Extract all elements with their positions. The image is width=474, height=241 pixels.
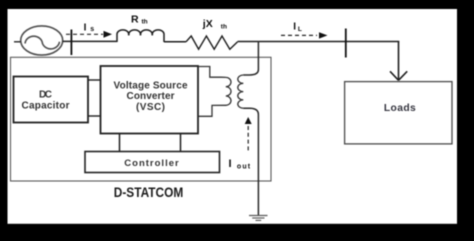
wire source to bus (63, 40, 117, 42)
svg-text:(VSC): (VSC) (136, 102, 165, 113)
svg-text:th: th (221, 24, 227, 31)
resistor jXth (186, 36, 238, 49)
ground (249, 216, 268, 221)
wire transformer to ground (243, 108, 258, 215)
arrowhead into Loads (390, 71, 407, 80)
wire DC link top (88, 79, 101, 81)
svg-text:th: th (142, 19, 148, 26)
inductor Rth (117, 30, 164, 42)
label VSC (114, 80, 188, 112)
svg-text:Capacitor: Capacitor (22, 100, 70, 111)
current arrow IL (dashed) (281, 32, 328, 38)
svg-text:D-STATCOM: D-STATCOM (114, 185, 184, 200)
wire jXth to load corner (238, 41, 400, 43)
wire junction to transformer (243, 41, 258, 75)
svg-text:I: I (84, 23, 87, 34)
Loads box (345, 82, 452, 144)
AC source G1 (21, 26, 63, 55)
svg-text:R: R (131, 13, 139, 25)
svg-text:s: s (90, 26, 94, 33)
svg-text:DC: DC (39, 89, 52, 100)
wire DC link bottom (88, 115, 101, 117)
D-STATCOM enclosure box (11, 57, 272, 181)
current arrow Is (dashed) (66, 31, 112, 38)
svg-text:Voltage Source: Voltage Source (114, 80, 188, 91)
bus bar node 2 (345, 29, 347, 58)
svg-text:Converter: Converter (127, 91, 175, 102)
wire down to Loads (398, 41, 400, 80)
transformer T1 primary winding (199, 67, 232, 117)
label DC Capacitor (22, 89, 70, 111)
current arrow Iout (dashed, up) (245, 117, 252, 153)
wire VSC to controller right (180, 134, 182, 152)
svg-text:out: out (237, 163, 251, 170)
svg-text:Controller: Controller (124, 158, 179, 169)
svg-text:I: I (293, 21, 296, 32)
wire source left stub (14, 41, 21, 43)
svg-text:Loads: Loads (384, 103, 416, 114)
VSC converter box U1 (101, 66, 199, 134)
svg-text:I: I (229, 158, 232, 170)
wire Rth to jXth (164, 41, 186, 43)
label jXth (202, 18, 227, 30)
transformer T1 secondary winding (238, 75, 244, 108)
label Rth (131, 13, 148, 25)
controller box U2 (85, 152, 220, 173)
bus bar node 1 (70, 30, 72, 56)
svg-text:L: L (298, 26, 302, 33)
label Is (84, 23, 95, 34)
svg-text:jX: jX (202, 18, 213, 30)
label Iout (229, 158, 251, 170)
label IL (293, 21, 302, 33)
wire VSC to controller left (119, 134, 121, 152)
DC capacitor box (14, 77, 89, 123)
